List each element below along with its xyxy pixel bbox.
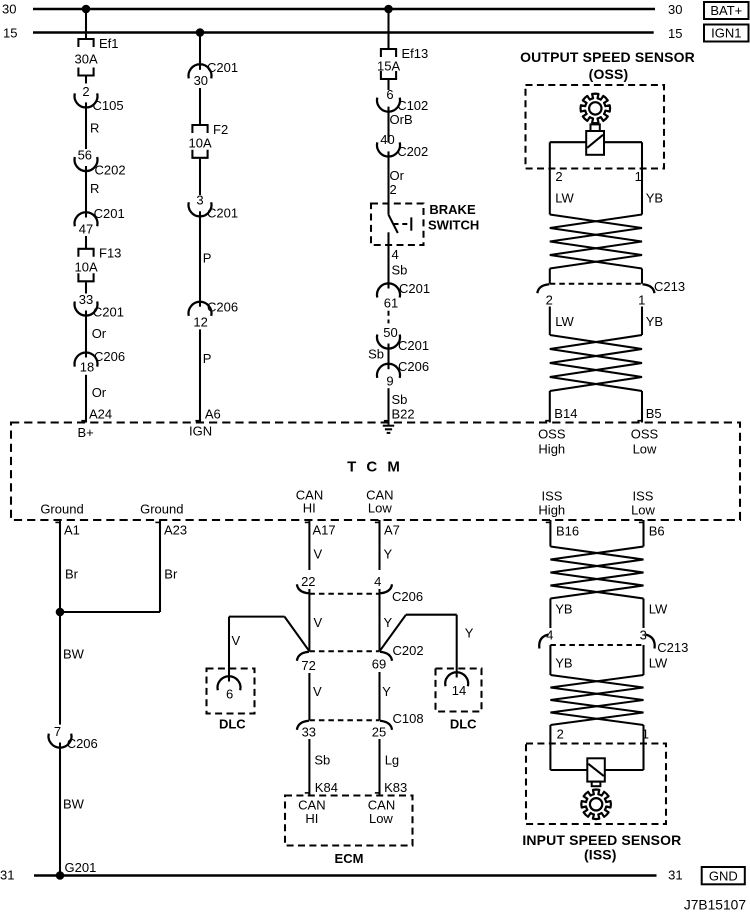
svg-text:2: 2 [557, 726, 564, 741]
svg-text:Ef1: Ef1 [99, 36, 119, 51]
svg-text:A17: A17 [313, 523, 336, 538]
svg-text:69: 69 [372, 656, 386, 671]
svg-text:2: 2 [390, 182, 397, 197]
svg-text:10A: 10A [75, 259, 98, 274]
svg-text:22: 22 [301, 574, 315, 589]
svg-text:C201: C201 [399, 281, 430, 296]
svg-text:A7: A7 [384, 523, 400, 538]
svg-text:BAT+: BAT+ [710, 3, 742, 18]
svg-text:10A: 10A [189, 136, 212, 151]
svg-text:Br: Br [164, 567, 178, 582]
svg-text:A1: A1 [64, 523, 80, 538]
svg-text:6: 6 [386, 87, 393, 102]
svg-text:YB: YB [555, 601, 572, 616]
svg-text:V: V [314, 547, 323, 562]
svg-text:3: 3 [196, 193, 203, 208]
svg-text:P: P [203, 250, 212, 265]
svg-text:K83: K83 [384, 780, 407, 795]
svg-text:Lg: Lg [385, 753, 399, 768]
svg-text:15: 15 [668, 26, 682, 41]
svg-text:LW: LW [555, 314, 574, 329]
svg-text:High: High [538, 441, 565, 456]
svg-text:B6: B6 [649, 523, 665, 538]
svg-text:12: 12 [193, 314, 207, 329]
svg-text:Y: Y [465, 625, 474, 640]
svg-text:Or: Or [92, 326, 107, 341]
svg-text:GND: GND [709, 868, 738, 883]
svg-text:DLC: DLC [219, 717, 246, 732]
svg-text:1: 1 [638, 292, 645, 307]
svg-text:50: 50 [383, 325, 397, 340]
svg-text:YB: YB [646, 314, 663, 329]
svg-text:C202: C202 [95, 162, 126, 177]
svg-text:C201: C201 [398, 338, 429, 353]
svg-text:Sb: Sb [392, 392, 408, 407]
svg-text:Low: Low [631, 502, 655, 517]
svg-text:15: 15 [3, 26, 17, 41]
svg-text:YB: YB [555, 655, 572, 670]
svg-text:Low: Low [368, 500, 392, 515]
svg-text:2: 2 [546, 292, 553, 307]
svg-text:A24: A24 [89, 406, 112, 421]
svg-text:T C M: T C M [347, 459, 403, 476]
svg-text:56: 56 [78, 148, 92, 163]
svg-text:R: R [90, 120, 99, 135]
svg-text:18: 18 [80, 360, 94, 375]
svg-text:DLC: DLC [450, 717, 477, 732]
svg-text:30A: 30A [75, 52, 98, 67]
svg-text:C202: C202 [393, 643, 424, 658]
svg-text:OrB: OrB [390, 112, 413, 127]
svg-text:K84: K84 [315, 780, 338, 795]
svg-text:Y: Y [384, 547, 393, 562]
svg-text:HI: HI [305, 811, 318, 826]
svg-text:1: 1 [642, 726, 649, 741]
svg-text:LW: LW [649, 655, 668, 670]
svg-text:B16: B16 [556, 523, 579, 538]
svg-text:J7B15107: J7B15107 [684, 897, 746, 912]
svg-text:BW: BW [63, 796, 85, 811]
svg-text:C201: C201 [94, 206, 125, 221]
svg-text:OSS: OSS [631, 426, 659, 441]
svg-text:31: 31 [668, 867, 682, 882]
svg-text:C102: C102 [397, 98, 428, 113]
svg-text:31: 31 [0, 868, 14, 883]
svg-text:BW: BW [63, 646, 85, 661]
svg-text:2: 2 [82, 84, 89, 99]
svg-text:CAN: CAN [298, 797, 325, 812]
svg-text:B+: B+ [78, 425, 94, 440]
svg-text:2: 2 [555, 169, 562, 184]
svg-text:Ground: Ground [40, 501, 83, 516]
svg-text:Y: Y [384, 615, 393, 630]
svg-text:INPUT SPEED SENSOR: INPUT SPEED SENSOR [522, 832, 681, 848]
svg-text:C206: C206 [67, 736, 98, 751]
svg-text:HI: HI [303, 500, 316, 515]
svg-text:Y: Y [382, 684, 391, 699]
svg-text:Sb: Sb [314, 753, 330, 768]
svg-text:C201: C201 [207, 205, 238, 220]
svg-text:30: 30 [668, 2, 682, 17]
svg-text:7: 7 [54, 724, 61, 739]
svg-text:ECM: ECM [335, 851, 364, 866]
svg-text:Ef13: Ef13 [402, 46, 429, 61]
svg-text:CAN: CAN [368, 797, 395, 812]
svg-text:61: 61 [384, 295, 398, 310]
svg-text:C213: C213 [654, 279, 685, 294]
svg-text:Low: Low [633, 441, 657, 456]
svg-text:P: P [203, 351, 212, 366]
svg-text:1: 1 [635, 169, 642, 184]
svg-text:C105: C105 [93, 98, 124, 113]
svg-text:OUTPUT SPEED SENSOR: OUTPUT SPEED SENSOR [520, 49, 695, 65]
svg-text:Or: Or [390, 168, 405, 183]
svg-text:ISS: ISS [542, 488, 563, 503]
svg-text:9: 9 [386, 373, 393, 388]
svg-text:14: 14 [452, 683, 466, 698]
svg-text:B22: B22 [392, 406, 415, 421]
svg-text:4: 4 [392, 247, 399, 262]
svg-text:25: 25 [372, 725, 386, 740]
svg-text:30: 30 [194, 73, 208, 88]
svg-text:40: 40 [380, 132, 394, 147]
svg-text:R: R [90, 181, 99, 196]
svg-text:V: V [313, 684, 322, 699]
svg-text:IGN: IGN [189, 423, 212, 438]
svg-text:6: 6 [226, 687, 233, 702]
svg-text:Low: Low [369, 811, 393, 826]
svg-text:F13: F13 [99, 246, 121, 261]
svg-text:Ground: Ground [140, 501, 183, 516]
svg-text:C206: C206 [392, 589, 423, 604]
svg-text:C206: C206 [94, 349, 125, 364]
svg-text:IGN1: IGN1 [711, 26, 741, 41]
svg-text:B5: B5 [646, 406, 662, 421]
svg-text:C202: C202 [397, 144, 428, 159]
svg-text:High: High [538, 502, 565, 517]
svg-text:Sb: Sb [368, 346, 384, 361]
svg-text:V: V [232, 633, 241, 648]
svg-text:C201: C201 [93, 304, 124, 319]
svg-text:(OSS): (OSS) [589, 66, 629, 82]
svg-text:YB: YB [646, 190, 663, 205]
svg-text:SWITCH: SWITCH [428, 218, 479, 233]
svg-text:33: 33 [302, 725, 316, 740]
svg-text:A6: A6 [205, 406, 221, 421]
svg-text:V: V [314, 615, 323, 630]
svg-text:47: 47 [79, 221, 93, 236]
svg-text:F2: F2 [213, 122, 228, 137]
svg-text:Sb: Sb [392, 263, 408, 278]
svg-text:ISS: ISS [633, 488, 654, 503]
svg-text:G201: G201 [65, 860, 97, 875]
svg-text:C206: C206 [398, 359, 429, 374]
svg-text:BRAKE: BRAKE [429, 202, 476, 217]
svg-text:LW: LW [555, 190, 574, 205]
svg-text:C213: C213 [657, 640, 688, 655]
svg-text:4: 4 [374, 574, 381, 589]
svg-text:15A: 15A [377, 58, 400, 73]
svg-text:OSS: OSS [538, 426, 566, 441]
svg-text:72: 72 [301, 658, 315, 673]
svg-text:Or: Or [92, 385, 107, 400]
svg-text:33: 33 [79, 292, 93, 307]
svg-text:(ISS): (ISS) [584, 847, 617, 863]
svg-text:30: 30 [2, 2, 16, 17]
svg-text:LW: LW [649, 601, 668, 616]
svg-text:B14: B14 [554, 406, 577, 421]
svg-text:A23: A23 [164, 523, 187, 538]
svg-text:C108: C108 [393, 711, 424, 726]
svg-text:Br: Br [65, 567, 79, 582]
